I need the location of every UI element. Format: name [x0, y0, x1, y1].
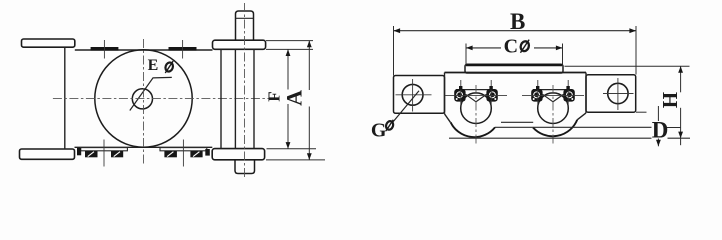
- svg-text:C: C: [504, 35, 518, 57]
- svg-text:H: H: [658, 92, 682, 108]
- svg-text:D: D: [652, 118, 669, 143]
- svg-text:G: G: [371, 119, 387, 141]
- svg-text:A: A: [282, 90, 307, 106]
- svg-text:B: B: [510, 9, 525, 34]
- svg-text:E: E: [148, 57, 159, 74]
